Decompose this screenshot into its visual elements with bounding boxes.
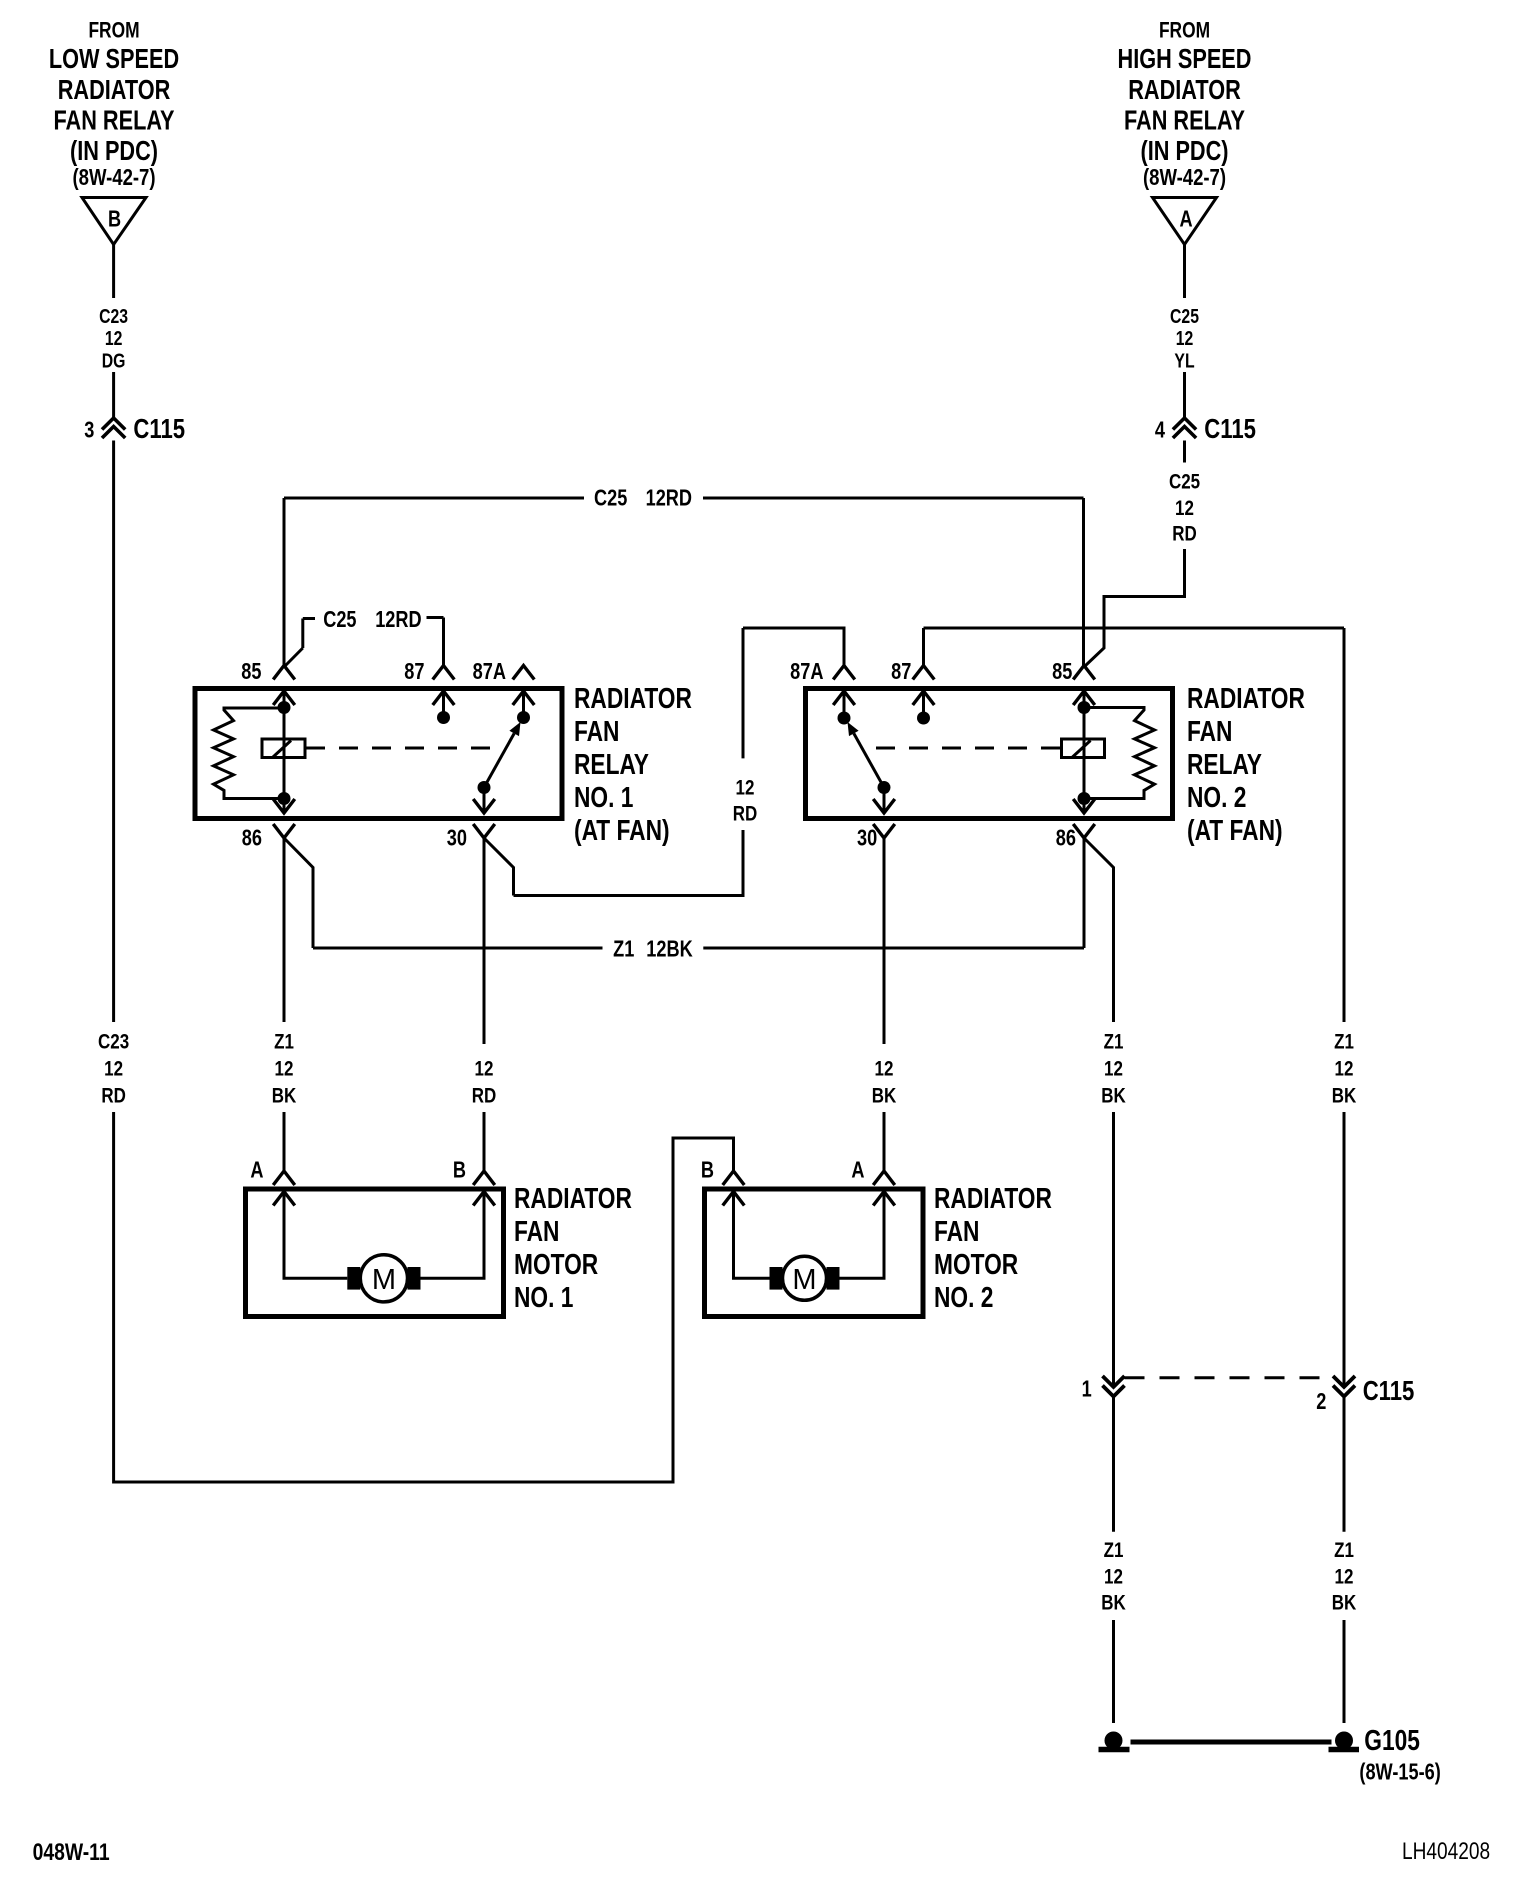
relay1 coil winding (vertical wire through coil box) [283, 708, 286, 799]
svg-text:12: 12 [736, 776, 755, 800]
svg-text:FAN: FAN [1187, 717, 1232, 748]
svg-text:12: 12 [104, 1057, 123, 1081]
svg-text:30: 30 [447, 826, 467, 852]
svg-text:HIGH SPEED: HIGH SPEED [1118, 45, 1252, 75]
wire: long run from label down, across bottom, up to motor no.2 pin B [114, 1112, 734, 1482]
relay2 pin 30 internal pivot dot [883, 788, 886, 814]
wire: C115 pin 4 down to label C25 12 RD [1183, 441, 1186, 463]
relay1 armature switch (30 to 87A) [484, 733, 514, 787]
motor1 armature circle with M [360, 1255, 407, 1302]
relay1 pin 30 terminal chevrons [473, 799, 495, 813]
relay1 coil box symbol [262, 739, 305, 758]
svg-text:G105: G105 [1364, 1725, 1420, 1756]
wire: C115 pin 1 down to lower Z1 12 BK label [1112, 1397, 1115, 1532]
wire: label to motor1 pin B [483, 1112, 486, 1171]
off-page connector triangle A (from high speed radiator fan relay) [1153, 198, 1217, 245]
wire: relay2 87A up and left [743, 628, 844, 666]
svg-text:30: 30 [857, 826, 877, 852]
svg-text:RADIATOR: RADIATOR [1187, 684, 1305, 715]
relay1 pin 86 terminal chevrons [273, 799, 295, 813]
svg-text:RD: RD [472, 1084, 497, 1108]
wire: right Z1 12BK drop down to label [1343, 628, 1346, 1022]
svg-text:YL: YL [1174, 350, 1194, 372]
relay1 suppression resistor [214, 708, 285, 799]
svg-text:A: A [1179, 207, 1192, 233]
wire: C115 pin 2 down to lower Z1 12 BK label [1343, 1397, 1346, 1532]
in-line connector C115 pin 2 (double chevron down) [1333, 1376, 1355, 1387]
relay2 pin 87 terminal chevrons [913, 666, 935, 680]
svg-text:FROM: FROM [88, 19, 139, 43]
ground bar left [1099, 1747, 1130, 1753]
wire: triangle B down to label C23 12 DG [112, 245, 115, 299]
wire: relay1 86 straight down to label Z1 12 BK [283, 838, 286, 1022]
wire: Z1 12BK rail between relay1 86 and relay2 86 [313, 947, 603, 950]
motor2 pin B terminal chevrons [723, 1171, 745, 1185]
motor1 internal wire from pin A [284, 1192, 347, 1279]
relay2 actuation dashed link [866, 747, 1060, 750]
relay1 pin 86 internal node dot [283, 799, 286, 814]
wire: right drop to ground G105 [1343, 1620, 1346, 1723]
svg-text:3: 3 [84, 418, 94, 444]
svg-text:12: 12 [1176, 327, 1194, 349]
svg-text:NO. 2: NO. 2 [934, 1283, 993, 1314]
relay2 pin 87A terminal chevrons [833, 666, 855, 680]
svg-text:Z1: Z1 [1334, 1030, 1354, 1054]
relay1 actuation dashed link [306, 747, 502, 750]
connector C115 mating dashed line [1125, 1376, 1332, 1379]
svg-text:048W-11: 048W-11 [33, 1838, 110, 1866]
motor1 left brush [347, 1267, 360, 1290]
motor1 internal wire from pin B [421, 1192, 485, 1279]
svg-text:RADIATOR: RADIATOR [574, 684, 692, 715]
svg-text:FROM: FROM [1159, 19, 1210, 43]
svg-text:NO. 2: NO. 2 [1187, 783, 1246, 814]
svg-text:C115: C115 [1204, 414, 1256, 445]
ground eyelet dot left [1105, 1732, 1123, 1750]
svg-text:87A: 87A [473, 659, 506, 685]
svg-text:B: B [701, 1158, 714, 1184]
svg-text:BK: BK [1101, 1084, 1126, 1108]
ground bar right [1329, 1747, 1360, 1753]
off-page connector triangle B (from low speed radiator fan relay) [82, 198, 146, 245]
motor2 armature circle with M [783, 1256, 827, 1300]
svg-text:(8W-42-7): (8W-42-7) [72, 165, 155, 191]
svg-text:12BK: 12BK [646, 937, 692, 963]
svg-text:LH404208: LH404208 [1402, 1837, 1490, 1865]
relay2 pin 30 terminal chevrons [873, 799, 895, 813]
svg-text:C115: C115 [1363, 1376, 1415, 1407]
wire: label to connector C115 pin 4 [1183, 372, 1186, 418]
relay1 pin 87A internal contact dot [522, 691, 525, 718]
svg-text:RD: RD [733, 802, 758, 826]
wire: right drop to C115 pin 2 [1343, 1112, 1346, 1387]
svg-text:12RD: 12RD [375, 607, 421, 633]
svg-text:12: 12 [1175, 496, 1194, 520]
wire: relay2 87 up to Z1 rail start [922, 628, 925, 666]
svg-text:12: 12 [1104, 1564, 1123, 1588]
svg-text:87: 87 [891, 659, 911, 685]
svg-text:FAN RELAY: FAN RELAY [1124, 106, 1245, 136]
motor1 right brush [408, 1267, 421, 1290]
svg-text:BK: BK [272, 1084, 297, 1108]
motor2 left brush [770, 1267, 783, 1290]
svg-text:87: 87 [404, 659, 424, 685]
wire: label to motor2 pin A [883, 1112, 886, 1171]
motor2 right brush [827, 1267, 840, 1290]
wire: relay1 30 straight down to label 12 RD [483, 838, 486, 1044]
wire: 12 RD vertical lower segment to horizontal, joins relay1 pin 30 branch [514, 830, 744, 896]
svg-text:Z1: Z1 [613, 937, 634, 963]
svg-text:B: B [108, 207, 121, 233]
svg-text:12: 12 [1335, 1564, 1354, 1588]
svg-text:BK: BK [1332, 1591, 1357, 1615]
svg-text:C115: C115 [133, 414, 185, 445]
relay2 pin 86 terminal chevrons [1073, 799, 1095, 813]
wire: relay1 86 branch jog to Z1 12BK horizontal [284, 838, 313, 948]
svg-text:(8W-15-6): (8W-15-6) [1359, 1760, 1440, 1786]
wire: Z1 rail right end up to relay2 pin 86 [1083, 838, 1086, 948]
svg-text:BK: BK [872, 1084, 897, 1108]
relay K1 box: RADIATOR FAN RELAY NO. 1 [195, 689, 562, 819]
wire: label to motor1 pin A [283, 1112, 286, 1171]
motor2 internal wire from pin B [734, 1192, 770, 1279]
svg-text:12: 12 [1335, 1057, 1354, 1081]
svg-text:1: 1 [1082, 1377, 1092, 1403]
svg-text:(IN PDC): (IN PDC) [1140, 137, 1228, 167]
svg-text:MOTOR: MOTOR [934, 1250, 1018, 1281]
svg-text:FAN: FAN [574, 717, 619, 748]
wire: horizontal from relay2 87 to right Z1 12BK drop [924, 627, 1345, 630]
wire: top rail right drop to relay no.2 pin 85 [1082, 498, 1085, 666]
svg-text:Z1: Z1 [274, 1030, 294, 1054]
svg-text:FAN RELAY: FAN RELAY [53, 106, 174, 136]
relay K2 box: RADIATOR FAN RELAY NO. 2 [806, 689, 1173, 819]
relay1 pin 30 internal pivot dot [483, 788, 486, 814]
relay2 pin 87 internal contact dot [922, 691, 925, 718]
svg-text:2: 2 [1316, 1389, 1326, 1415]
svg-text:85: 85 [241, 659, 261, 685]
svg-text:RELAY: RELAY [1187, 750, 1262, 781]
relay2 pin 85 terminal chevrons [1073, 666, 1095, 680]
wire: 12 RD vertical upper segment [742, 628, 745, 758]
svg-text:BK: BK [1332, 1084, 1357, 1108]
wire: C115 pin 3 down to label C23 12 RD [112, 441, 115, 1023]
motor2 pin A terminal chevrons [873, 1171, 895, 1185]
svg-text:FAN: FAN [514, 1217, 559, 1248]
relay1 pin 85 internal node dot [283, 691, 286, 708]
svg-text:C23: C23 [98, 1030, 129, 1054]
svg-text:C25: C25 [1170, 305, 1199, 327]
svg-text:NO. 1: NO. 1 [574, 783, 633, 814]
svg-text:RD: RD [1172, 522, 1197, 546]
motor M2 box: RADIATOR FAN MOTOR NO. 2 [705, 1189, 924, 1317]
relay2 pin 85 internal node dot [1083, 691, 1086, 708]
motor2 internal wire from pin A [840, 1192, 885, 1279]
relay1 pin 85 terminal chevrons [273, 666, 295, 680]
relay2 coil winding (vertical wire through coil box) [1083, 708, 1086, 799]
svg-text:85: 85 [1052, 659, 1072, 685]
svg-text:RELAY: RELAY [574, 750, 649, 781]
svg-text:RADIATOR: RADIATOR [514, 1184, 632, 1215]
in-line connector C115 pin 3 (double chevron) [102, 418, 125, 430]
svg-text:A: A [851, 1158, 864, 1184]
svg-text:12: 12 [105, 327, 123, 349]
in-line connector C115 pin 1 (double chevron down) [1103, 1376, 1125, 1387]
svg-text:RADIATOR: RADIATOR [1128, 76, 1241, 106]
svg-text:DG: DG [102, 350, 126, 372]
wire: C25 12 RD label down, jog left, to relay no.2 pin 85 [1085, 549, 1185, 666]
svg-text:C23: C23 [99, 305, 128, 327]
svg-text:RADIATOR: RADIATOR [58, 76, 171, 106]
svg-text:FAN: FAN [934, 1217, 979, 1248]
svg-text:(AT FAN): (AT FAN) [574, 816, 670, 847]
svg-text:4: 4 [1155, 418, 1166, 444]
svg-text:A: A [250, 1158, 263, 1184]
wire: triangle A down to label C25 12 YL [1183, 245, 1186, 299]
wire: left drop to ground G105 [1112, 1620, 1115, 1723]
motor M1 box: RADIATOR FAN MOTOR NO. 1 [246, 1189, 504, 1317]
relay2 coil box symbol [1062, 739, 1105, 758]
svg-text:C25: C25 [323, 607, 356, 633]
svg-text:86: 86 [242, 826, 262, 852]
relay2 pin 87A internal contact dot [843, 691, 846, 718]
in-line connector C115 pin 4 (double chevron) [1173, 418, 1196, 430]
wire: label to connector C115 pin 3 [112, 372, 115, 418]
svg-text:B: B [453, 1158, 466, 1184]
ground eyelet dot right [1335, 1732, 1353, 1750]
wire: relay1 30 branch jog toward relay2 87A [484, 838, 514, 896]
svg-text:Z1: Z1 [1334, 1538, 1354, 1562]
svg-text:12RD: 12RD [646, 486, 692, 512]
svg-text:12: 12 [1104, 1057, 1123, 1081]
relay2 suppression resistor [1084, 708, 1155, 799]
svg-text:12: 12 [275, 1057, 294, 1081]
relay2 armature switch (30 to 87A) [854, 733, 884, 787]
wire: top rail left drop to relay no.1 pin 85 [283, 498, 286, 666]
wire: relay2 30 down to label 12 BK [883, 838, 886, 1044]
svg-text:(IN PDC): (IN PDC) [70, 137, 158, 167]
relay1 pin 87A terminal chevrons [513, 666, 535, 680]
wire: top rail C25 12RD between relay1 pin 85 and relay2 pin 85 [284, 497, 584, 500]
motor1 pin A terminal chevrons [273, 1171, 295, 1185]
wire: relay2 ground run to C115 pin 1 [1112, 1112, 1115, 1387]
svg-text:RADIATOR: RADIATOR [934, 1184, 1052, 1215]
svg-text:MOTOR: MOTOR [514, 1250, 598, 1281]
wire: relay2 86 branch jog to ground run [1084, 838, 1114, 1022]
svg-text:LOW SPEED: LOW SPEED [49, 45, 179, 75]
svg-text:Z1: Z1 [1104, 1538, 1124, 1562]
svg-text:12: 12 [875, 1057, 894, 1081]
svg-text:RD: RD [101, 1084, 126, 1108]
svg-text:(8W-42-7): (8W-42-7) [1143, 165, 1226, 191]
relay1 pin 87 terminal chevrons [433, 666, 455, 680]
svg-text:M: M [372, 1264, 396, 1296]
svg-text:NO. 1: NO. 1 [514, 1283, 573, 1314]
svg-text:(AT FAN): (AT FAN) [1187, 816, 1283, 847]
relay2 pin 86 internal node dot [1083, 799, 1086, 814]
svg-text:BK: BK [1101, 1591, 1126, 1615]
svg-text:Z1: Z1 [1104, 1030, 1124, 1054]
svg-text:86: 86 [1056, 826, 1076, 852]
relay1 pin 87 internal contact dot [442, 691, 445, 718]
svg-text:C25: C25 [1169, 469, 1200, 493]
ground bus between eyelets [1131, 1740, 1332, 1745]
motor1 pin B terminal chevrons [473, 1171, 495, 1185]
svg-text:C25: C25 [594, 486, 627, 512]
svg-text:M: M [792, 1264, 816, 1296]
svg-text:87A: 87A [790, 659, 823, 685]
svg-text:12: 12 [475, 1057, 494, 1081]
